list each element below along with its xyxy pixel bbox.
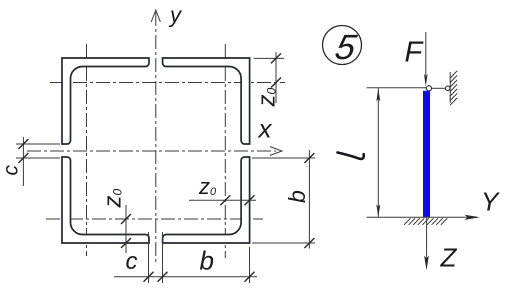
l bottom arrowhead bbox=[376, 204, 380, 217]
l top arrowhead bbox=[376, 89, 380, 102]
top link pin bbox=[446, 86, 450, 90]
bottom dimensions: dimension line bbox=[114, 276, 257, 278]
svg-text:F: F bbox=[405, 37, 425, 69]
centroid axis left vertical bbox=[86, 44, 88, 256]
dimension z0 top-right: ticks bbox=[271, 53, 281, 63]
svg-text:c: c bbox=[0, 165, 23, 176]
svg-text:b: b bbox=[284, 190, 310, 203]
Z axis line bbox=[426, 217, 428, 264]
dimension c left: dimension line bbox=[22, 137, 24, 186]
top pin circle bbox=[426, 86, 431, 91]
x axis arrowhead bbox=[270, 147, 282, 156]
centroid axis top horizontal bbox=[50, 82, 285, 84]
angle profile bottom-left bbox=[62, 157, 149, 243]
bottom dimensions: ticks bbox=[144, 272, 154, 282]
top wall line bbox=[449, 72, 451, 103]
svg-text:z0: z0 bbox=[100, 189, 127, 209]
dimension z0 bottom-left: dimension line bbox=[125, 205, 127, 253]
angle profile bottom-right bbox=[163, 157, 250, 243]
svg-text:c: c bbox=[126, 248, 138, 275]
l label bbox=[338, 153, 364, 159]
column bar bbox=[423, 91, 430, 218]
dimension c left: ticks bbox=[18, 139, 28, 149]
angle profile top-right bbox=[163, 58, 250, 144]
dimension z0 top-right: extension line bbox=[254, 57, 285, 59]
Z axis arrowhead bbox=[424, 256, 429, 271]
top wall hatching bbox=[450, 71, 457, 105]
force F line bbox=[425, 32, 427, 76]
bottom dimensions: extension lines bbox=[148, 232, 150, 283]
dimension z0 bottom-right: ticks bbox=[220, 195, 230, 205]
x axis centerline bbox=[27, 150, 276, 152]
top extension line bbox=[367, 87, 427, 89]
y axis centerline bbox=[155, 12, 157, 263]
dimension b right: dimension line bbox=[308, 150, 310, 249]
svg-text:z0: z0 bbox=[254, 88, 281, 108]
scheme number circle 5 bbox=[323, 26, 362, 65]
ground hatching bbox=[404, 218, 447, 225]
dimension b right: extension lines bbox=[252, 157, 315, 159]
dimension z0 top-right: dimension line bbox=[275, 52, 277, 103]
force F arrowhead bbox=[424, 74, 428, 86]
dimension b right: ticks bbox=[304, 153, 314, 163]
top link bbox=[432, 87, 446, 89]
svg-text:Z: Z bbox=[440, 243, 458, 273]
y axis arrowhead bbox=[151, 10, 160, 22]
centroid axis bottom horizontal bbox=[46, 218, 263, 220]
svg-text:b: b bbox=[200, 246, 214, 276]
Y axis arrowhead bbox=[465, 215, 481, 220]
length dimension line l bbox=[377, 88, 379, 217]
dimension z0 bottom-left: ticks bbox=[121, 214, 131, 224]
svg-text:Y: Y bbox=[481, 187, 500, 217]
svg-text:y: y bbox=[168, 3, 183, 28]
dimension c left: extension lines bbox=[16, 143, 60, 145]
ground line / Y axis bbox=[367, 216, 478, 218]
dimension z0 bottom-right: dimension line bbox=[189, 199, 256, 201]
svg-text:z0: z0 bbox=[198, 174, 217, 199]
svg-text:x: x bbox=[257, 114, 273, 144]
centroid axis right vertical bbox=[224, 44, 226, 258]
angle profile top-left bbox=[62, 58, 149, 144]
